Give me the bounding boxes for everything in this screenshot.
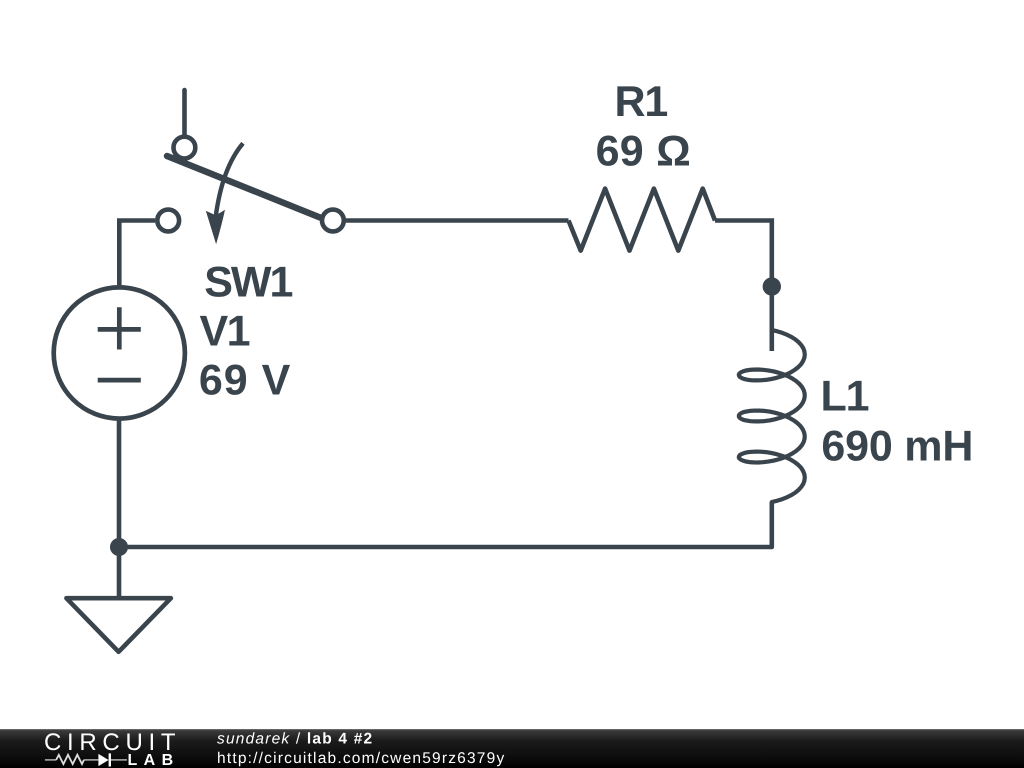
wire V1 to ground node (117, 419, 122, 547)
V1 plus sign (98, 307, 141, 349)
inductor L1 bottom lead (769, 503, 774, 547)
svg-text:690 mH: 690 mH (821, 422, 973, 470)
footer bar (0, 729, 1024, 768)
svg-text:sundarek / lab 4 #2: sundarek / lab 4 #2 (217, 731, 373, 748)
switch SW1 left terminal (157, 210, 179, 232)
switch arrowhead (206, 210, 225, 244)
svg-text:69 V: 69 V (199, 356, 291, 404)
node dot at ground junction (110, 538, 128, 556)
svg-text:V1: V1 (200, 307, 250, 355)
svg-text:L1: L1 (821, 372, 869, 420)
svg-text:http://circuitlab.com/cwen59rz: http://circuitlab.com/cwen59rz6379y (217, 750, 505, 767)
resistor R1 zigzag (569, 189, 716, 251)
V1 minus sign (98, 378, 141, 383)
logo resistor-diode glyph (45, 753, 127, 766)
ground symbol (66, 598, 170, 652)
wire right terminal to resistor (346, 218, 569, 223)
switch SW1 pivot terminal (174, 137, 196, 159)
node dot above inductor (763, 277, 781, 295)
wire node to ground (117, 547, 122, 598)
voltage source V1 circle (54, 287, 185, 418)
switch SW1 top lead (182, 90, 187, 135)
svg-text:69 Ω: 69 Ω (596, 127, 691, 175)
switch SW1 right terminal (322, 210, 344, 232)
bottom wire (119, 545, 772, 550)
switch SW1 lever (167, 156, 320, 218)
svg-text:LAB: LAB (128, 752, 180, 768)
wire resistor to inductor top (715, 221, 772, 352)
svg-text:SW1: SW1 (204, 258, 292, 306)
svg-text:R1: R1 (615, 78, 668, 126)
wire left terminal to V1 (119, 221, 155, 291)
inductor L1 coil (739, 330, 805, 502)
switch SW1 actuation arc (216, 143, 244, 218)
